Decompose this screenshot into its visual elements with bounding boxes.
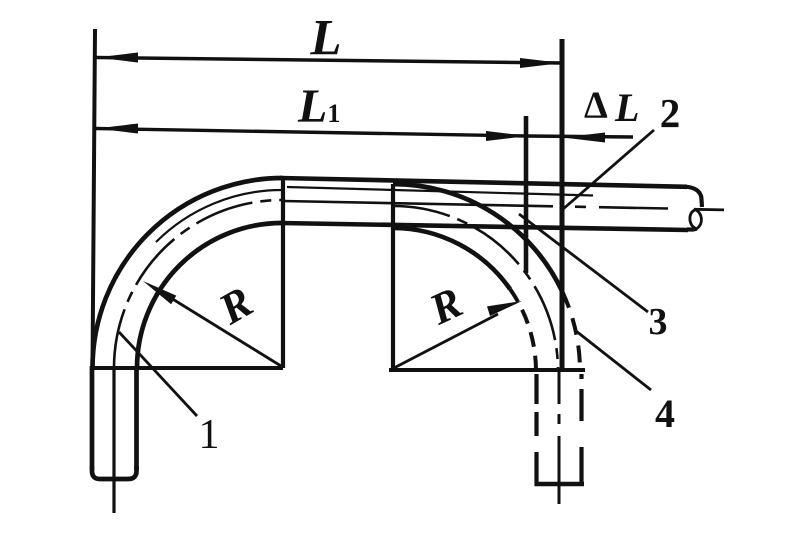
- tube top line: [280, 178, 687, 187]
- dimension line L1: [96, 129, 526, 137]
- tube centerline: [283, 201, 553, 206]
- extension line right (x=562): [560, 39, 565, 371]
- tube centerline dash: [599, 207, 668, 208]
- svg-text:L: L: [614, 85, 639, 130]
- svg-text:4: 4: [655, 391, 675, 436]
- leader 3: [519, 214, 648, 312]
- phantom leg right edge dash b: [579, 389, 583, 421]
- left leg centerline: [112, 368, 115, 513]
- tube bore lens: [690, 210, 702, 230]
- R arrow left: [158, 290, 281, 366]
- left bend bore arc: [156, 190, 282, 242]
- left triangle vertical: [281, 180, 285, 368]
- left bend inner arc: [137, 223, 282, 368]
- svg-text:L: L: [309, 11, 341, 67]
- extension line L1 (x=526): [524, 116, 529, 273]
- right bend inner arc solid: [393, 228, 510, 289]
- svg-text:2: 2: [660, 90, 681, 136]
- phantom leg centerline solid: [558, 436, 561, 504]
- phantom leg left edge dash a: [534, 374, 538, 404]
- phantom leg right edge solid: [579, 447, 583, 486]
- centerline extension right: [694, 208, 724, 211]
- leader 4: [576, 331, 651, 390]
- leader 1: [119, 332, 197, 416]
- right construction vertical: [391, 184, 395, 370]
- left bend centerline arc: [114, 200, 282, 368]
- right triangle horizontal: [389, 368, 585, 372]
- left leg cap: [92, 466, 137, 479]
- dimension arrow dL: [526, 136, 633, 137]
- left bend outer arc: [93, 178, 283, 368]
- R arrow right: [392, 314, 498, 369]
- phantom leg centerline dash a: [558, 372, 561, 404]
- phantom leg centerline dash b: [558, 414, 561, 424]
- phantom leg cap: [535, 482, 585, 486]
- left leg outer line: [90, 366, 95, 470]
- tube bottom line: [280, 223, 688, 230]
- tube bore line: [287, 187, 593, 196]
- extension line left (x=95): [93, 29, 96, 368]
- phantom leg right edge dash a: [579, 374, 583, 379]
- tube end cap top corner: [685, 187, 702, 207]
- tube end cap bottom corner: [687, 227, 696, 232]
- left triangle horizontal: [92, 366, 283, 370]
- dimension line L: [96, 58, 562, 64]
- svg-text:Δ: Δ: [584, 85, 608, 127]
- tube centerline dash: [575, 205, 586, 208]
- svg-text:1: 1: [199, 412, 220, 458]
- leader 2: [562, 130, 654, 210]
- right bend outer arc solid: [393, 184, 563, 292]
- right bend inner arc dashed: [510, 289, 536, 371]
- left leg inner line: [134, 368, 139, 470]
- right bend outer arc dashed: [563, 292, 581, 371]
- phantom leg left edge solid: [534, 452, 538, 486]
- svg-text:3: 3: [649, 301, 668, 343]
- phantom leg left edge dash b: [534, 412, 538, 436]
- right bend centerline arc: [393, 206, 558, 371]
